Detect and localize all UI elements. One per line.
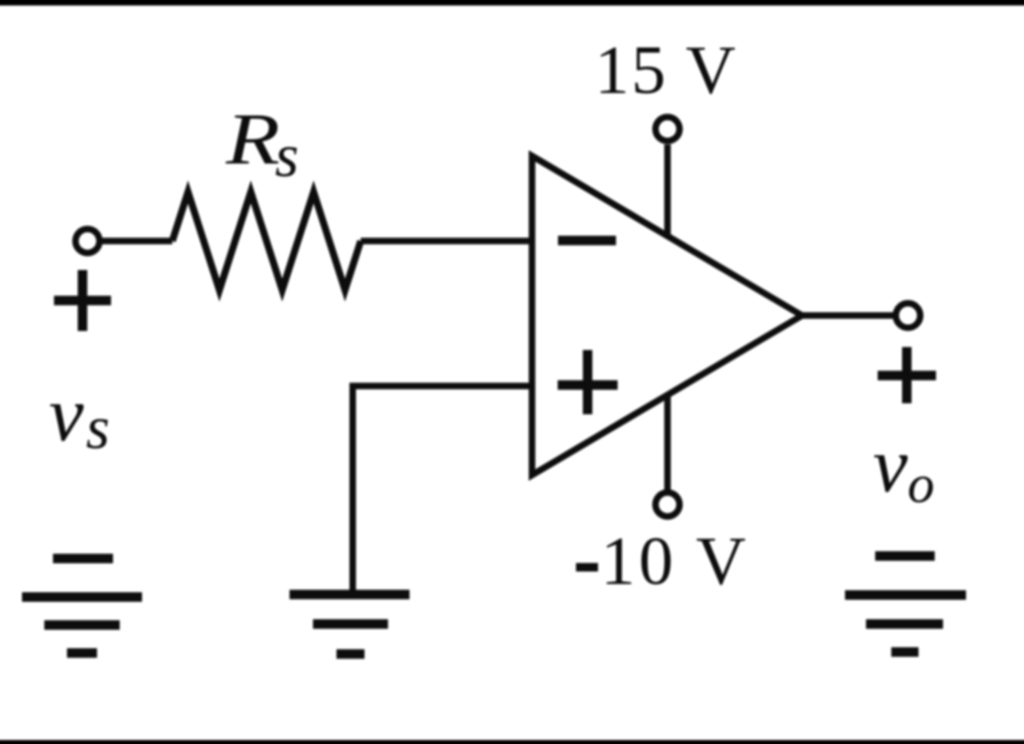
svg-text:v: v [49,370,84,457]
negative supply terminal (open circle) [656,493,680,517]
ground (middle, non-inverting input) [290,595,410,655]
input terminal node (open circle) [76,229,100,253]
label vs (source voltage) [49,370,110,462]
resistor Rs zigzag [172,192,360,290]
wire input terminal to resistor [103,238,173,245]
top border bar [0,0,1024,6]
minus sign (vo negative polarity, above right ground) [875,551,935,561]
output terminal node (open circle) [896,303,920,327]
ground (right, output reference) [845,595,966,652]
svg-text:10 V: 10 V [601,523,749,599]
wire resistor to op-amp inverting input [361,238,529,245]
positive supply terminal (open circle) [656,117,680,141]
plus sign (vs polarity) [54,270,111,331]
op-amp U1 triangle [532,156,802,475]
svg-text:o: o [908,454,935,514]
svg-text:15 V: 15 V [595,32,738,108]
output wire from op-amp apex [802,312,893,319]
ground (left, source reference) [22,597,142,653]
svg-text:s: s [275,123,299,190]
plus sign (vo polarity) [878,347,936,403]
label -10 V (negative supply) [576,523,749,599]
plus sign (non-inverting input) [558,350,618,414]
minus sign (inverting input) [558,236,616,246]
label vo (output voltage) [873,421,935,514]
svg-text:s: s [86,395,110,462]
svg-text:R: R [225,99,280,180]
bottom border bar [0,740,1024,744]
positive supply wire [664,145,671,237]
label Rs (resistor) [225,99,299,191]
wire non-inverting input down to ground [353,386,529,594]
negative supply wire [664,395,671,490]
minus sign (vs negative polarity, above left ground) [53,554,113,564]
svg-text:v: v [873,421,908,508]
